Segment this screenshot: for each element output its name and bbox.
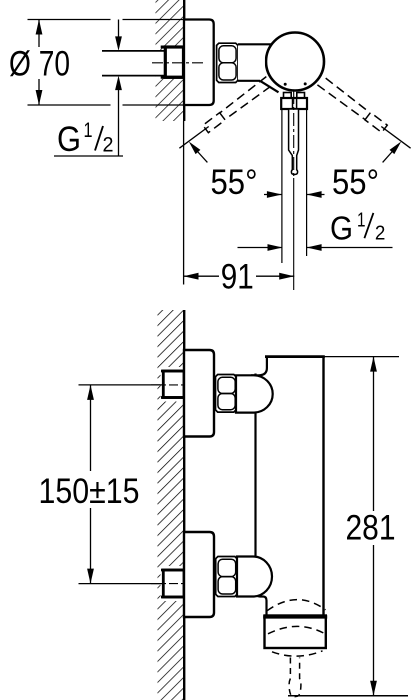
svg-text:55°: 55°	[211, 163, 258, 202]
G1/2 left dimension arrows	[118, 20, 120, 38]
svg-text:2: 2	[375, 223, 386, 245]
svg-text:G: G	[330, 210, 353, 247]
G1/2 left label	[54, 155, 123, 157]
pipe centerline (top view)	[152, 62, 204, 64]
lever width extension lines	[281, 109, 283, 263]
lower union centerline	[151, 583, 184, 585]
svg-text:150±15: 150±15	[39, 472, 140, 511]
upper hex nut (front view)	[216, 375, 237, 413]
body (front view)	[267, 358, 324, 614]
150+-15 dimension line and arrows	[90, 385, 92, 471]
square wall union (top view)	[165, 47, 183, 77]
dia70 extension lines	[28, 19, 111, 21]
dashed lever rotated right 55	[317, 77, 387, 133]
upper square wall union (front view)	[161, 367, 184, 402]
lever hub (top view)	[284, 93, 292, 99]
shower hose dashed	[289, 658, 301, 697]
valve body circle (top view)	[266, 33, 324, 91]
wall edge line (top view)	[183, 0, 185, 121]
svg-text:2: 2	[103, 134, 114, 157]
svg-text:G: G	[57, 120, 81, 159]
wall flange / escutcheon (top view)	[184, 20, 214, 106]
150+-15 extension lines	[79, 384, 164, 386]
wall hatch (front view)	[158, 310, 184, 700]
lower connection boss (front view)	[237, 557, 272, 597]
G1/2 right dimension arrows pair lower	[238, 247, 283, 249]
svg-text:281: 281	[346, 509, 396, 548]
upper union centerline	[151, 384, 184, 386]
shower holder dashed arc bottom	[272, 651, 323, 656]
91 dimension	[184, 275, 220, 277]
281 extension lines	[324, 356, 400, 358]
outlet cup (front view)	[265, 616, 326, 649]
supply pipe in wall (top view)	[102, 51, 164, 76]
svg-text:55°: 55°	[332, 163, 379, 202]
dashed lever rotated left 55	[202, 77, 272, 133]
lower flange (front view)	[184, 532, 214, 617]
dia70 dimension line and arrows	[38, 20, 40, 48]
svg-text:1: 1	[84, 119, 93, 142]
lever handle (top view, center position)	[289, 109, 299, 175]
55deg arc arrow left	[198, 152, 208, 163]
281 dimension line and arrows	[373, 357, 375, 511]
lower square wall union (front view)	[161, 566, 184, 601]
lever centerline	[293, 91, 295, 178]
svg-text:91: 91	[221, 257, 254, 296]
shower holder dashed arc middle	[268, 626, 324, 633]
screw dots on body (top view)	[284, 83, 287, 86]
upper flange (front view)	[184, 350, 214, 437]
55deg extension line left	[179, 127, 208, 149]
lever width arrows pair upper	[264, 194, 282, 196]
lower hex nut (front view)	[216, 557, 237, 597]
hex nut (top view)	[217, 43, 238, 82]
svg-text:1: 1	[357, 209, 366, 231]
upper connection boss (front view)	[236, 375, 273, 412]
shower holder dashed arc top	[267, 600, 326, 611]
wall hatch (top view)	[156, 0, 185, 121]
55deg extension line right	[381, 127, 410, 149]
svg-text:Ø 70: Ø 70	[9, 45, 70, 84]
wall edge line (front view)	[183, 310, 185, 700]
connector between nut and body (top view)	[238, 45, 265, 79]
55deg arc arrow right	[383, 152, 393, 163]
